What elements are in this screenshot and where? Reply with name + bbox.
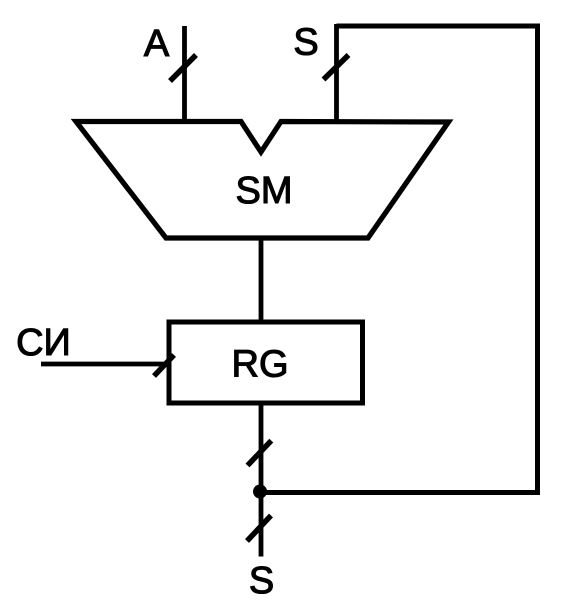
svg-text:S: S <box>293 22 318 64</box>
svg-text:RG: RG <box>232 344 289 386</box>
svg-text:A: A <box>144 23 170 65</box>
svg-text:S: S <box>249 560 274 602</box>
svg-text:SM: SM <box>236 170 293 212</box>
svg-text:СИ: СИ <box>16 322 71 364</box>
